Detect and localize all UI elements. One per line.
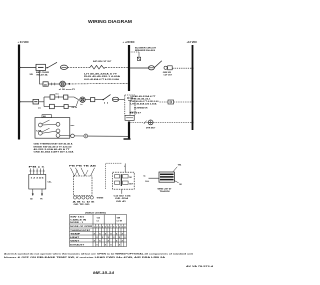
connector J3 top pin [124,163,126,172]
svg-text:WIRE LIST 4T: WIRE LIST 4T [158,187,173,190]
wire TB2 to TH4 label [173,167,177,172]
relay K2 terminal box [125,115,134,120]
svg-text:HEAT: HEAT [70,236,80,239]
svg-text:SW: SW [30,74,33,76]
diode CR1 box [64,105,68,109]
wire to relay K2 box [119,99,125,101]
switch S4 tick [144,121,147,124]
svg-text:ME-15-14: ME-15-14 [93,271,114,275]
contact C circle [56,134,60,138]
svg-text:7: 7 [110,226,111,228]
svg-text:GND 40-49A 4 ART 40T 2-60A: GND 40-49A 4 ART 40T 2-60A [34,151,75,154]
svg-text:C4 GD 105: C4 GD 105 [114,194,131,197]
connector J3 bottom pin [121,189,123,194]
wire split [39,101,44,103]
svg-text:TEMP: TEMP [70,233,81,235]
svg-text:OD: OD [179,184,182,186]
junction on B3 [192,122,194,124]
svg-text:THERMOSTAT: THERMOSTAT [70,229,91,232]
switch S2 [103,95,111,100]
switch S5 circle [38,123,42,127]
svg-text:X: X [96,244,98,246]
svg-text:ZD: ZD [44,84,47,86]
wire row1 right from B2 [129,67,149,69]
connector J1 top pins [30,169,32,175]
svg-text:ALTERNATOR: ALTERNATOR [134,107,148,110]
svg-text:X: X [110,244,112,246]
connector J3 body [113,172,135,189]
svg-text:LHG 40-49A 220 2-60A: LHG 40-49A 220 2-60A [131,103,158,106]
svg-text:X: X [105,244,107,246]
wire TB2 to OD label [174,181,178,183]
wire dashed motor row [130,122,192,124]
svg-text:TR: TR [40,199,43,201]
svg-text:1: 1 [94,226,95,228]
wire dashed to B3 [172,67,191,69]
svg-text:GND THERMOSTAT SW 40-49 A: GND THERMOSTAT SW 40-49 A [34,143,74,146]
wire dashed row1 left of resistor [68,66,90,68]
svg-text:(TABLE LEGEND): (TABLE LEGEND) [85,211,106,214]
lamp DS1 [60,81,66,87]
wire [54,106,64,108]
svg-text:C1 TR: C1 TR [117,220,123,222]
wire lower branch merge [68,100,78,107]
svg-text:DHG 40-49-22-1: DHG 40-49-22-1 [131,97,151,100]
svg-text:6c: 6c [144,176,146,178]
svg-text:+12 VDC: +12 VDC [187,40,198,44]
connector J2 body [73,176,92,196]
table cell marks [94,225,127,246]
wire from text block to R2 [160,101,169,103]
bus B1 (left vertical bus) [18,45,20,140]
svg-text:3: 3 [99,226,100,228]
wire [55,96,64,98]
svg-text:TH4OM: TH4OM [160,190,171,193]
table row lines [70,223,127,225]
connector P1 oval [60,65,67,69]
svg-text:CABLE IN: CABLE IN [70,218,87,221]
wire out of TB1 [60,134,71,137]
wire dashed to B3 [174,101,192,103]
wire to B2 bottom [88,135,128,137]
svg-text:WIRING DIAGRAM: WIRING DIAGRAM [88,19,133,24]
junction on B2 row1 [128,67,130,69]
svg-text:RELAY 4A: RELAY 4A [37,74,49,77]
wire lead into TB2 [149,177,160,179]
svg-text:1 2 3 4 5: 1 2 3 4 5 [31,176,44,179]
svg-text:5: 5 [105,226,106,228]
switch S6 circle [38,131,42,135]
generator switch G1 [164,66,167,69]
svg-text:BREAKER 20A 4006: BREAKER 20A 4006 [135,49,156,52]
junction on B3 [192,101,194,103]
breaker CB1 box [50,95,55,99]
connector P3 oval [148,66,154,70]
breaker CB5 [137,57,140,60]
svg-text:LHG-40-49A 4 7T 4-220 2-60A: LHG-40-49A 4 7T 4-220 2-60A [84,78,120,81]
svg-text:TH4: TH4 [178,163,183,166]
bus B2 bottom foot bar [124,138,131,140]
svg-text:2: 2 [119,226,120,228]
wire [42,131,56,133]
junction on B3 [192,67,194,69]
svg-text:Asterisk symbol do not operate: Asterisk symbol do not operate when ther… [4,252,194,255]
svg-text:2: 2 [96,226,97,228]
svg-text:GD: GD [30,199,33,201]
relay K2 dashed enclosure [125,95,135,115]
svg-text:THERM: THERM [97,198,104,200]
contact B circle [56,129,60,133]
switch S3 [155,61,162,68]
svg-text:AV VA 78-573-4: AV VA 78-573-4 [186,265,214,268]
wire dashed into J3 [106,163,122,189]
svg-text:LHG-40-49 4 7T 4-220 2-60: LHG-40-49 4 7T 4-220 2-60 [131,100,159,103]
connector J1 bottom pins [32,189,34,196]
svg-text:LH 40-49-220A 4 7T: LH 40-49-220A 4 7T [84,72,118,75]
contacts inside J3 [115,175,120,178]
svg-text:max: max [71,125,76,127]
connector P2 oval [112,97,118,101]
svg-text:1: 1 [116,226,117,228]
table T1 frame [70,215,127,247]
svg-text:S w: S w [56,94,60,96]
connector J2 top pins (diagonals) [71,168,75,176]
connector J1 body [29,174,46,189]
wire branch BLOWER from B2 [129,51,139,53]
wire [42,123,56,126]
wire dashed row1 right of resistor [106,66,128,68]
fuse F2 box [33,99,39,104]
svg-text:SW 151: SW 151 [70,217,84,219]
svg-text:OK: OK [129,177,132,179]
wire drop to row at y84 [40,71,44,85]
svg-text:b: b [124,166,126,168]
svg-text:GD JD4: GD JD4 [115,197,128,200]
breaker CB4 box [91,98,95,102]
wire upper branch to junction [68,97,79,100]
svg-text:A B C D E F: A B C D E F [130,111,142,114]
svg-text:6: 6 [108,226,109,228]
svg-text:C4-L: C4-L [145,180,150,183]
bus B3 (right vertical bus) [192,45,194,130]
breaker CB2 box [64,95,68,99]
relay K2 contacts [127,97,129,99]
svg-text:C1: C1 [97,220,99,222]
wire row1 from B1 [19,67,36,69]
wire upper branch [44,96,50,98]
terminal board TB2 [159,172,174,182]
junction on B2 supply wire [128,83,130,85]
svg-text:MTR MOT: MTR MOT [146,127,156,129]
relay K1 box [36,64,46,70]
svg-text:MODE - 1: MODE - 1 [70,222,83,224]
junction on B1 row2 [19,101,21,103]
svg-text:EXHAUST: EXHAUST [70,243,85,246]
svg-text:+ +24VDC: + +24VDC [123,40,135,44]
bus B2 upper segment [128,45,130,91]
breaker CB3 box [50,104,55,108]
svg-text:PB | 1: PB | 1 [29,167,45,169]
svg-text:MODE OF OPER: MODE OF OPER [70,226,93,228]
diamond node D1 [84,134,88,138]
svg-text:GD 41: GD 41 [116,200,126,203]
junction on B1 row1 [19,67,21,69]
svg-text:GD TR OD: GD TR OD [74,204,91,206]
svg-text:el 36 com PI: el 36 com PI [59,89,76,91]
contact bar inside J3 [120,174,122,186]
resistor R1 zigzag [90,65,106,69]
svg-text:40-220 2-60A 40-49 A 7T: 40-220 2-60A 40-49 A 7T [34,148,71,151]
svg-text:TJ4: TJ4 [97,217,101,220]
connector J2 bottom terminals [73,196,76,199]
box on top of TB1 [42,115,52,118]
bus B2 lower segment [128,122,130,139]
svg-text:8: 8 [113,226,114,228]
svg-text:+ 24 VDC: + 24 VDC [18,40,29,44]
svg-text:VENT: VENT [70,240,80,242]
svg-text:C4-L: C4-L [48,181,53,184]
svg-text:GDY: GDY [129,183,134,185]
wire [48,83,59,85]
motor M1 [148,120,153,125]
wire with arrow to B2 at y83.5 [66,82,128,85]
svg-text:tu: tu [81,103,84,106]
svg-text:DHG 40-49-220-1 4-60A: DHG 40-49-220-1 4-60A [84,75,121,78]
svg-text:LH 40-49-220A 4 7T: LH 40-49-220A 4 7T [131,95,157,98]
wire [74,135,84,137]
svg-text:3: 3 [122,226,123,228]
contact A circle [56,122,60,126]
wire [85,99,90,101]
svg-text:PB PB TB AB: PB PB TB AB [69,165,98,168]
lamp DS2 [80,97,85,102]
svg-text:BAT GEN CUT OUT: BAT GEN CUT OUT [93,60,112,63]
svg-text:T4R: T4R [117,217,121,220]
terminal E1 circle [71,134,75,138]
svg-text:MODE SW 40-49 4 7T 220-60: MODE SW 40-49 4 7T 220-60 [34,145,72,148]
wire lower branch [44,106,50,108]
table column lines [92,215,94,247]
wire [95,99,103,101]
fuse F1 box [43,82,48,86]
svg-text:CUT OUT: CUT OUT [164,75,173,77]
svg-text:X: X [119,244,121,246]
svg-text:am: am [38,107,41,109]
switch S1 [47,62,57,68]
thermostat box TB1 [35,118,70,139]
resistor R2 box [168,100,174,104]
wire row2 from B1 [19,101,33,103]
svg-text:blower & OFF ON RELEASE TEM: blower & OFF ON RELEASE TEMP SW, if resi… [4,256,166,259]
